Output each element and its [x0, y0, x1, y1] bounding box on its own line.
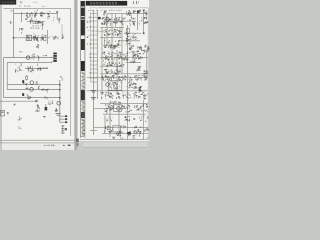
handwritten mark top [20, 1, 23, 3]
wire: drop x147 mid [146, 50, 148, 80]
wire: main vertical bus left [13, 9, 15, 58]
resistor R10 vertical [26, 75, 28, 81]
inter-page gap shadow [74, 0, 77, 150]
node: junction x143 y33 [143, 32, 145, 34]
wire: long rail y101 [0, 100, 38, 102]
wire: pin ladder vertical 1 [93, 10, 95, 135]
wire: drop x127 [127, 25, 129, 140]
capacitor pair on ladder 2 [91, 97, 96, 99]
footer dot group [63, 145, 70, 146]
wire: branch from node A [56, 12, 58, 20]
cluster x145 y128 [144, 128, 149, 132]
coil can 2 (dark) [139, 86, 143, 92]
label marks [43, 116, 46, 118]
wire: vertical feed [47, 30, 49, 44]
amp block contents [109, 82, 121, 90]
connector J2 pins [60, 115, 67, 123]
margin strip vertical text (upper) [81, 72, 85, 90]
pencil note TW [33, 2, 37, 3]
amplifier block U2 [114, 105, 122, 112]
label Data [130, 61, 135, 64]
resistor R8 on rail [37, 56, 40, 61]
transistor T5 circle [57, 101, 61, 105]
row y75-80 cluster C [134, 75, 148, 81]
row y125-132 cluster A [104, 126, 113, 133]
row y68-73 cluster [104, 69, 121, 75]
wire: drop x104 low [104, 38, 106, 48]
wire: feed to J1 bottom [50, 62, 52, 64]
row y125-136 cluster C [133, 126, 141, 137]
wire: rail y62 [126, 62, 141, 64]
tuner circle symbol [27, 56, 30, 59]
wire: drop x112 [111, 14, 113, 66]
transistor circle Q11 [117, 107, 121, 111]
capacitor C7 on rail [32, 53, 36, 60]
marks right of C3 [41, 22, 44, 26]
cluster x138 y46 [138, 46, 143, 50]
wire: mid horizontal rail [14, 37, 51, 39]
stage B lower [104, 40, 120, 50]
row y104-112 cluster B [122, 105, 132, 113]
pencil mark a. [14, 103, 16, 105]
cluster below top right [129, 17, 135, 27]
terminal box bottom-left [1, 110, 5, 116]
wire: drop x107 [106, 14, 108, 45]
right page header bar [86, 1, 127, 6]
margin marks under schematic 2 [132, 137, 135, 139]
wire: rail y37 [100, 37, 122, 39]
wire: rail y40 [118, 40, 140, 42]
wire: rail y90 [87, 90, 148, 92]
caps row x133-144 [133, 53, 144, 60]
emitter network T5 [55, 108, 58, 111]
wire: rail y133 [102, 133, 148, 135]
coil can dark blob x99 [98, 17, 101, 19]
screw terminal left upper [22, 80, 24, 83]
cluster x145 y45 [145, 45, 150, 51]
pin ladder ticks [90, 14, 98, 83]
dense row y52-60 right [117, 52, 131, 62]
resistor box x127 [127, 28, 130, 33]
row y91-99 cluster B [116, 92, 131, 100]
faint blob under stamp [10, 10, 13, 12]
row y116-123 cluster A [106, 116, 113, 121]
capacitor C9 vertical [26, 94, 28, 98]
IF transformer labels [53, 18, 61, 24]
margin strip right rule [84, 1, 86, 138]
wire: rail y84 [7, 84, 60, 86]
wire: feed to J1 top [50, 57, 54, 59]
resistor group above [103, 11, 106, 16]
title stamp (top-left) [0, 0, 16, 5]
marks on rail y97 mid [44, 96, 48, 100]
pencil mark e [18, 116, 22, 120]
electrolytic C3 blob [38, 21, 40, 24]
trimmer marks [36, 44, 39, 48]
wire: rail y73 [100, 73, 149, 75]
row y125-132 cluster B [116, 131, 124, 137]
row y75-80 cluster B [118, 76, 132, 83]
right page frame top border [98, 7, 148, 9]
stage A caps [113, 17, 125, 25]
shield box inner [7, 63, 50, 90]
right page frame bottom border [80, 139, 148, 141]
wire: drop x115 top [115, 14, 117, 28]
left page frame top border [4, 8, 72, 10]
marks x20 y28 [19, 28, 23, 33]
wire: vertical bus x60 [59, 80, 61, 123]
node: bus junction y84 [59, 84, 61, 86]
row y116-123 cluster C [139, 116, 149, 122]
wire: top horizontal rail [14, 13, 58, 15]
label tel [19, 51, 22, 52]
wire: drop x143 lower [143, 100, 145, 140]
wire: stub right [57, 37, 59, 40]
left page paper [2, 0, 74, 143]
wire: drop x120 mid [119, 27, 121, 37]
stage B middle [104, 29, 122, 36]
resistor row top right [133, 10, 136, 13]
transistor T4 circle [30, 81, 34, 85]
transistor T3 stage [15, 63, 23, 72]
resistor R2 group [40, 12, 44, 17]
wire: rail y77 [87, 77, 148, 79]
footer page mark B [76, 139, 79, 147]
right top cluster [143, 10, 148, 17]
wire: rail y108 [94, 108, 127, 110]
ground symbol low [112, 137, 115, 138]
junction group x136 y67 [136, 66, 142, 71]
label MC [10, 21, 13, 24]
text y126 x121 [121, 126, 126, 129]
wire: stub a [36, 64, 38, 67]
mixer stage group [27, 66, 34, 73]
wire: drop x137 [137, 10, 139, 30]
crystal X1 [62, 34, 64, 39]
electrolytic C12 [45, 104, 48, 110]
detector cluster [126, 10, 131, 18]
node: junction x127 y40 [127, 40, 129, 42]
wire: rail y21 [112, 20, 136, 22]
right page paper [78, 0, 149, 141]
diode D1 / resistor R5 group [40, 34, 46, 41]
IF amplifier stage A [101, 17, 111, 27]
value note above rail [37, 9, 38, 12]
wire: rail y57 [100, 57, 148, 59]
row y62-66 cluster [103, 62, 124, 68]
dark blob x127 y131 [127, 131, 131, 136]
value label row 2 [31, 28, 41, 29]
left page lower margin [2, 143, 74, 150]
transistor circle Q10 [106, 83, 110, 87]
wire: drop x143 upper [143, 10, 145, 33]
wire: drop x133 mid [132, 51, 134, 61]
wire: rail y33 [124, 32, 141, 34]
value label row [33, 25, 41, 26]
ladder-side marks y26-48 [87, 27, 89, 45]
wire: shield inner bottom to bus [7, 89, 60, 91]
amplifier block U1 [108, 81, 122, 90]
wire: right vertical stub [61, 24, 63, 38]
left page frame right border [70, 9, 72, 136]
coil can (dark) [137, 10, 141, 14]
row y104-112 cluster C [134, 104, 148, 112]
wire: second rail [27, 20, 45, 22]
connector J1 [53, 53, 57, 62]
decoupling group [28, 96, 32, 100]
pencil note ri [42, 6, 46, 7]
wire: shield outer bottom to bus [4, 97, 60, 99]
wire: rail y103 [100, 103, 148, 105]
resistor R1 / capacitor C1 group [34, 12, 37, 18]
text row y50 right [131, 50, 149, 55]
scanner background [0, 0, 150, 150]
wire: rail y13 [107, 13, 148, 15]
wire: lower rail in shield [25, 68, 48, 70]
left page bottom rule (inner) [0, 142, 76, 144]
wire: rail y115 [103, 113, 146, 115]
capacitor pair on ladder 1 [91, 90, 96, 92]
label 99 [38, 86, 40, 89]
margin strip vertical text (lower) [81, 101, 85, 112]
oscillator group [38, 67, 42, 71]
print row mid left [98, 31, 106, 32]
value text x131 y34 [132, 34, 138, 41]
diode ring on rail [33, 36, 36, 39]
transistor T4b circle [30, 88, 34, 92]
bias network [35, 81, 38, 85]
marks left of T5 [48, 100, 53, 105]
handwritten note over border [19, 6, 30, 7]
node: junction dot A [56, 11, 58, 13]
transistor T1 stage [25, 12, 33, 20]
cluster right y18 [139, 17, 149, 25]
pot P1 marks [51, 36, 57, 40]
wire: stub to label [41, 25, 43, 30]
screw terminal left lower [22, 93, 24, 96]
label Tide [43, 67, 48, 68]
small print under bar [90, 7, 97, 8]
margin strip title blocks [81, 1, 85, 118]
margin strip left rule [80, 1, 82, 138]
wire: input stub [21, 12, 23, 22]
margin strip vertical text (bottom) [81, 119, 85, 137]
wire: drop x105 low [104, 115, 106, 133]
label TK [43, 55, 47, 56]
transistor T2 stage [33, 34, 39, 42]
print row under header [88, 10, 122, 11]
left page bottom rule (outer) [0, 139, 76, 141]
right page bottom scanner strip [78, 141, 150, 150]
row y75-80 cluster A [101, 75, 115, 82]
marks on rail y97 [41, 89, 44, 91]
wire: rail y27 [100, 26, 124, 28]
wire: drop x117 [116, 50, 118, 95]
wire: ladder branch x93 low [90, 130, 97, 132]
choke on rail y101 [36, 100, 39, 103]
row y104-112 cluster A [104, 104, 114, 114]
margin marks under schematic 1 [120, 137, 123, 141]
node: bus junction y89 [59, 89, 61, 91]
marks on rail y89 mid [45, 89, 49, 93]
marks on rail y89 left [25, 88, 28, 90]
text row y101 [110, 101, 121, 105]
coil L1 column [48, 11, 51, 19]
filter FE column [61, 125, 67, 134]
wire: drop x110 low [109, 104, 111, 137]
wire: drop x102 [101, 27, 103, 95]
row y83-89 right [127, 82, 138, 89]
wire: rail y127 [94, 127, 149, 129]
wire: rail y45 [103, 44, 121, 46]
amplifier block U3 [113, 126, 121, 132]
marks on rail y84 left [23, 83, 28, 86]
row y91-99 cluster C [133, 92, 148, 100]
cluster x129 y45 [129, 45, 134, 51]
cluster x144 y70 [144, 70, 148, 75]
relay K1 box [26, 35, 31, 40]
scanner strip rule [83, 146, 147, 148]
node: junction on left bus [13, 37, 15, 39]
wire: drop x122 [121, 14, 123, 74]
capacitor C13 ticks [35, 110, 40, 112]
capacitor C11 ticks [56, 114, 61, 116]
link symbol [7, 112, 9, 113]
node: bus junction y97 [59, 97, 61, 99]
label above bus [60, 76, 63, 81]
capacitor C2 row [30, 20, 42, 25]
extra texture y14-24 left [87, 17, 90, 23]
wire: ladder vertical 0 [89, 12, 91, 82]
shield box outer [4, 58, 53, 98]
footer figure caption [44, 145, 55, 146]
handwritten 17 top right [133, 1, 138, 4]
dense row y52-60 left [101, 52, 116, 62]
pencil note ja [18, 127, 22, 130]
right page frame right border [147, 8, 149, 140]
wire: drop x119 low [118, 104, 120, 134]
wire: pin ladder vertical 2 [96, 10, 98, 99]
wire: junction stub [36, 109, 38, 113]
row y91-99 cluster A [101, 92, 114, 100]
margin marks under schematic 3 [146, 137, 150, 139]
wire: rail y66 [100, 65, 124, 67]
network W group [37, 105, 40, 110]
resistor column x127 [126, 32, 132, 46]
row y116-123 cluster B [124, 116, 135, 121]
